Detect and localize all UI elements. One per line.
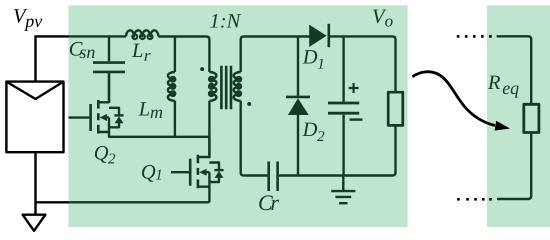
- svg-text:2: 2: [317, 129, 325, 145]
- svg-text:R: R: [487, 72, 501, 94]
- svg-text:2: 2: [108, 152, 116, 168]
- svg-text:o: o: [385, 12, 394, 31]
- svg-text:r: r: [270, 190, 279, 215]
- svg-text:1: 1: [155, 168, 163, 184]
- svg-text:Q: Q: [94, 143, 109, 165]
- svg-text:L: L: [131, 40, 143, 62]
- svg-text:pv: pv: [23, 11, 42, 31]
- svg-text:L: L: [138, 99, 150, 121]
- svg-text:Q: Q: [141, 162, 156, 184]
- svg-text:sn: sn: [79, 42, 95, 62]
- svg-text:r: r: [144, 46, 151, 65]
- svg-text:m: m: [150, 102, 163, 122]
- svg-text:eq: eq: [502, 78, 519, 98]
- svg-text:1:N: 1:N: [210, 10, 242, 32]
- svg-text:1: 1: [317, 57, 325, 73]
- svg-text:D: D: [302, 119, 318, 141]
- svg-text:D: D: [302, 47, 318, 69]
